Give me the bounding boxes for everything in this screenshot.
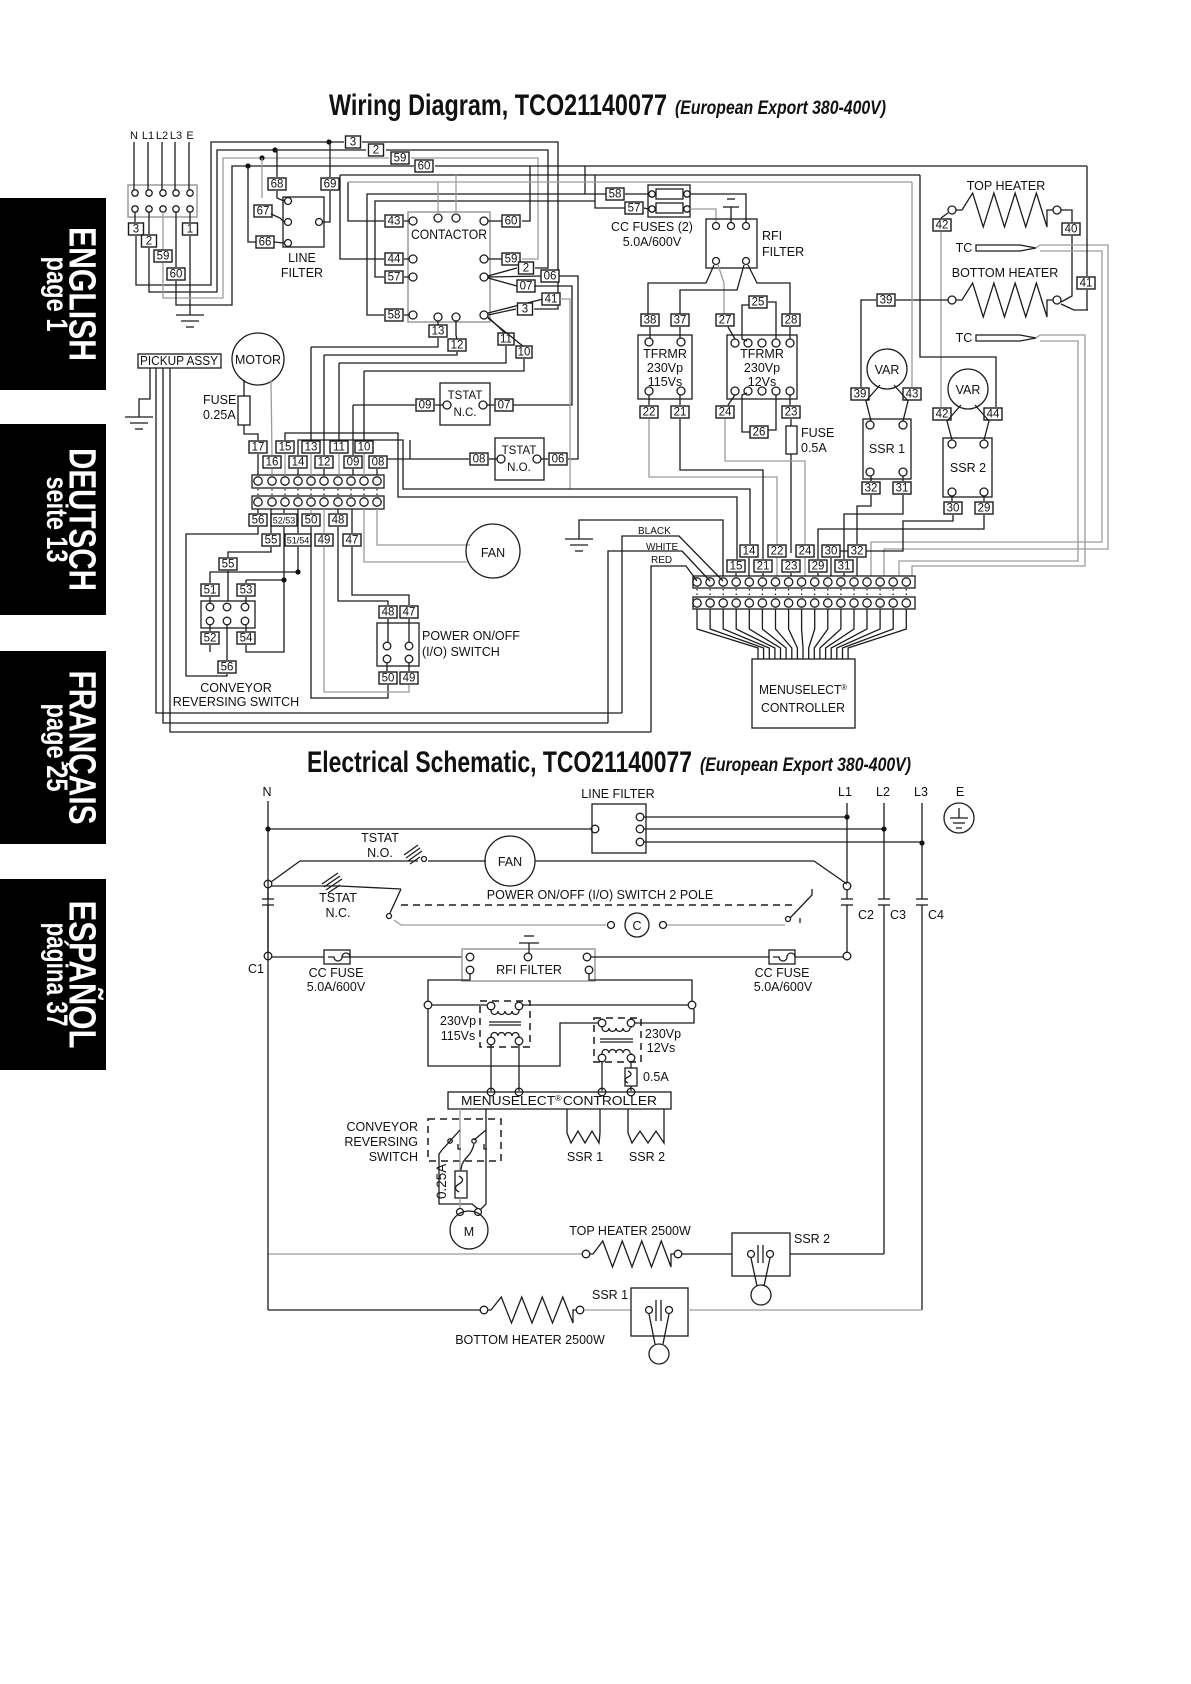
left strip lower labels row1 [257, 509, 259, 513]
terminal dotted links left [257, 489, 259, 496]
svg-text:FILTER: FILTER [762, 245, 804, 259]
svg-text:67: 67 [257, 206, 270, 218]
svg-text:PICKUP ASSY: PICKUP ASSY [140, 354, 219, 368]
bus label 60 [415, 160, 433, 173]
label 24 [716, 406, 734, 419]
controller box schematic [448, 1092, 671, 1109]
VAR1 legs [866, 385, 880, 421]
wire 57 feed [375, 201, 625, 277]
svg-text:MENUSELECT®: MENUSELECT® [759, 683, 847, 698]
svg-text:E: E [956, 785, 964, 799]
label 41 contactor [488, 299, 543, 313]
svg-text:5.0A/600V: 5.0A/600V [623, 235, 682, 249]
label 11 contactor [488, 317, 506, 334]
svg-text:3: 3 [133, 224, 139, 236]
svg-text:L2: L2 [876, 785, 890, 799]
ground pickup [125, 416, 153, 418]
label 06 tstat [549, 453, 567, 466]
svg-text:VAR: VAR [956, 383, 981, 397]
label 49 power [408, 663, 410, 671]
wire 49 return [324, 547, 409, 692]
label 21 [671, 406, 689, 419]
label 60 (L3) [167, 268, 185, 281]
VAR 1 [867, 349, 907, 389]
svg-text:25: 25 [752, 297, 765, 309]
transformer TFRMR1 box [638, 335, 692, 399]
svg-text:14: 14 [743, 546, 756, 558]
conveyor blade 2 [474, 1130, 486, 1140]
label 69 [329, 142, 331, 177]
svg-text:10: 10 [358, 442, 371, 454]
wire 15 to right strip [285, 433, 737, 559]
svg-text:POWER ON/OFF (I/O) SWITCH 2 PO: POWER ON/OFF (I/O) SWITCH 2 POLE [487, 888, 713, 902]
fan wires [364, 509, 467, 562]
svg-text:N.C.: N.C. [454, 407, 477, 419]
svg-text:10: 10 [518, 347, 531, 359]
svg-text:SWITCH: SWITCH [369, 1150, 418, 1164]
svg-text:Electrical Schematic, TCO21140: Electrical Schematic, TCO21140077 [307, 746, 692, 779]
wire RFI to 28 [748, 265, 790, 314]
wires controller to conveyor [459, 1109, 461, 1171]
svg-text:L3: L3 [170, 130, 182, 142]
contactor box [408, 212, 490, 322]
svg-text:M: M [464, 1225, 474, 1239]
svg-text:seite 13: seite 13 [40, 477, 73, 563]
io switch right blade [814, 861, 847, 884]
svg-text:12: 12 [318, 457, 331, 469]
svg-text:CC FUSE: CC FUSE [755, 966, 810, 980]
wire 31 to strip [844, 495, 903, 559]
left strip lower labels row2 [270, 509, 272, 533]
svg-text:60: 60 [418, 161, 431, 173]
label 43 [385, 215, 403, 228]
svg-text:44: 44 [987, 409, 1000, 421]
svg-text:(I/O) SWITCH: (I/O) SWITCH [422, 645, 500, 659]
svg-text:49: 49 [403, 673, 416, 685]
label 53 [237, 584, 255, 597]
wire tfmr2 to fuse half amp [630, 1061, 632, 1068]
svg-text:C3: C3 [890, 908, 906, 922]
svg-text:230Vp: 230Vp [647, 361, 683, 375]
svg-text:29: 29 [812, 561, 825, 573]
label 22 [640, 406, 658, 419]
wire 42 gray riser [940, 232, 942, 407]
svg-text:57: 57 [388, 272, 401, 284]
svg-text:43: 43 [388, 216, 401, 228]
svg-text:13: 13 [305, 442, 318, 454]
svg-text:CC FUSE: CC FUSE [309, 966, 364, 980]
VAR 2 [948, 369, 988, 409]
controller fan-out wires [697, 609, 758, 659]
svg-text:31: 31 [896, 483, 909, 495]
wire 58 feed [367, 194, 606, 315]
svg-text:42: 42 [936, 409, 949, 421]
right strip labels upper [740, 545, 758, 558]
svg-text:56: 56 [252, 515, 265, 527]
svg-text:REVERSING: REVERSING [344, 1135, 418, 1149]
white wire [608, 551, 710, 723]
tstat NO box [495, 438, 544, 480]
wire fan right [535, 860, 814, 862]
rail N [267, 801, 269, 884]
wire N branch circle [264, 880, 272, 888]
svg-text:BOTTOM HEATER 2500W: BOTTOM HEATER 2500W [455, 1333, 605, 1347]
SSR2 coil [627, 1109, 629, 1133]
wire 10 riser [363, 371, 365, 440]
transformer T2 schematic [594, 1018, 641, 1062]
svg-text:06: 06 [552, 454, 565, 466]
svg-text:230Vp: 230Vp [744, 361, 780, 375]
wire tfmr1 to right node [523, 1004, 688, 1006]
wire top heater right [1061, 210, 1072, 222]
SSR2 contact box [732, 1233, 790, 1276]
svg-text:51/54: 51/54 [287, 536, 310, 546]
fuse 0.25A schematic [455, 1171, 467, 1198]
wire left node to tfmr1 [432, 1004, 487, 1006]
wires tfmr1 to controller [490, 1045, 492, 1091]
svg-text:VAR: VAR [875, 363, 900, 377]
svg-text:1: 1 [187, 224, 193, 236]
io switch right hook [790, 889, 812, 918]
svg-text:POWER ON/OFF: POWER ON/OFF [422, 629, 520, 643]
label 06 contactor [488, 276, 542, 277]
sidebar tab ENGLISH page 1 [0, 198, 106, 390]
wire RFI to right node [589, 974, 692, 1001]
svg-text:12Vs: 12Vs [748, 375, 777, 389]
power switch box [377, 623, 419, 666]
wire 48 to switch [338, 527, 388, 605]
wire fuse to motor [459, 1198, 461, 1208]
wire TC1 lines [884, 245, 1108, 576]
wire fuse2 to RFI [690, 209, 716, 222]
wire 43 feed [348, 182, 384, 221]
svg-text:47: 47 [403, 607, 416, 619]
wire 12 riser [323, 355, 325, 455]
SSR1 contact box [631, 1288, 688, 1336]
label 10 contactor [488, 318, 524, 347]
node C1 circle [264, 952, 272, 960]
svg-text:48: 48 [332, 515, 345, 527]
wire TC2 lines [912, 335, 1085, 576]
svg-text:N.C.: N.C. [326, 906, 351, 920]
svg-text:37: 37 [674, 315, 687, 327]
svg-text:(European Export 380-400V): (European Export 380-400V) [700, 755, 911, 776]
label 59 contactor [488, 258, 502, 260]
svg-text:59: 59 [394, 153, 407, 165]
wire SSR1 to L3 [688, 1309, 922, 1311]
conveyor switch box [201, 601, 255, 628]
svg-text:58: 58 [388, 310, 401, 322]
svg-text:29: 29 [978, 503, 991, 515]
svg-text:53: 53 [240, 585, 253, 597]
svg-text:CONTACTOR: CONTACTOR [411, 226, 487, 242]
SSR1 coil [566, 1109, 568, 1133]
svg-text:0.25A: 0.25A [203, 408, 236, 422]
svg-text:CONVEYOR: CONVEYOR [200, 681, 272, 695]
label 42 var [933, 408, 951, 421]
svg-text:TC: TC [956, 331, 973, 345]
rail L1 [846, 803, 848, 882]
wires supply entry [133, 142, 135, 190]
wire C to right pole [667, 924, 785, 926]
svg-text:66: 66 [259, 237, 272, 249]
wire left node jog [428, 1009, 598, 1066]
label 47 power [400, 606, 418, 619]
label 1 (E) [183, 223, 198, 236]
label 39 heater [877, 294, 895, 307]
SSR2 coil circle [751, 1258, 757, 1286]
wire 23 to fuse [790, 419, 792, 426]
svg-text:15: 15 [730, 561, 743, 573]
tstat NC sensor [322, 873, 342, 893]
svg-text:3: 3 [350, 137, 356, 149]
black wire [622, 536, 723, 713]
contactor top pin stubs [437, 182, 439, 214]
svg-text:57: 57 [628, 203, 641, 215]
svg-text:page 25: page 25 [40, 704, 73, 792]
wire 47 to switch [352, 547, 409, 605]
svg-text:23: 23 [785, 561, 798, 573]
svg-text:LINE: LINE [288, 251, 316, 265]
svg-text:5.0A/600V: 5.0A/600V [307, 980, 366, 994]
wire L1 to label 2 [148, 212, 150, 234]
conveyor blade 1 [442, 1130, 460, 1150]
wire SSR2 to L2 [790, 1253, 884, 1255]
svg-text:FILTER: FILTER [281, 266, 323, 280]
conveyor switch box schematic [428, 1119, 501, 1161]
label 52 [209, 625, 211, 631]
label 57 fuse [625, 202, 643, 215]
wire L3 to label 60 [175, 212, 177, 267]
svg-text:59: 59 [157, 251, 170, 263]
svg-text:0.5A: 0.5A [643, 1070, 669, 1084]
power switch dashed link [401, 904, 795, 906]
sidebar tab ESPANOL pagina 37 [0, 879, 106, 1070]
label 55 conveyor [219, 558, 237, 571]
svg-text:51: 51 [204, 585, 217, 597]
svg-text:12: 12 [451, 340, 464, 352]
svg-text:TOP HEATER: TOP HEATER [967, 179, 1046, 193]
svg-text:50: 50 [305, 515, 318, 527]
wire 55 drop [228, 547, 271, 557]
wire bus 60 [176, 166, 414, 305]
svg-text:SSR 2: SSR 2 [629, 1150, 665, 1164]
svg-text:TC: TC [956, 241, 973, 255]
svg-text:07: 07 [498, 400, 511, 412]
SSR2 box [943, 438, 992, 497]
svg-text:44: 44 [388, 254, 401, 266]
motor [232, 333, 284, 385]
svg-text:09: 09 [419, 400, 432, 412]
wire L2 to label 59 [162, 212, 164, 249]
svg-text:2: 2 [523, 263, 529, 275]
svg-text:24: 24 [719, 407, 732, 419]
label 44 var [984, 408, 1002, 421]
tstat NC switch [271, 886, 401, 889]
red wire [651, 566, 697, 732]
svg-text:N.O.: N.O. [367, 846, 393, 860]
right strip risers [748, 558, 750, 576]
label 07 tstat [495, 399, 513, 412]
svg-text:5.0A/600V: 5.0A/600V [754, 980, 813, 994]
bus label 59 [391, 152, 409, 165]
label 29 [983, 496, 985, 501]
fuse F2 [656, 203, 683, 213]
svg-text:C: C [632, 919, 641, 933]
svg-text:12Vs: 12Vs [647, 1041, 676, 1055]
top heater schematic [268, 1253, 582, 1255]
wire tfmr2 to right node [635, 1009, 694, 1023]
label 07 contactor [488, 278, 517, 286]
wire 44 feed [340, 175, 384, 259]
transformer T1 schematic [480, 1001, 530, 1047]
svg-text:115Vs: 115Vs [648, 375, 683, 389]
svg-text:230Vp: 230Vp [645, 1027, 681, 1041]
label 43 var [903, 388, 921, 401]
black mid bus [340, 174, 920, 176]
ground mid [565, 538, 593, 540]
svg-text:TSTAT: TSTAT [502, 445, 537, 457]
wire 52 stub [209, 645, 211, 652]
svg-text:09: 09 [347, 457, 360, 469]
svg-text:REVERSING SWITCH: REVERSING SWITCH [173, 695, 299, 709]
label 44 [385, 253, 403, 266]
svg-text:49: 49 [318, 535, 331, 547]
wire N to line filter [268, 828, 592, 830]
rail L3 [921, 803, 923, 897]
capacitor C3 [878, 898, 890, 900]
svg-text:L1: L1 [838, 785, 852, 799]
label 56 bottom [226, 625, 228, 660]
right strip dotted links [696, 589, 698, 596]
svg-text:L3: L3 [914, 785, 928, 799]
contactor pins [409, 217, 417, 225]
svg-text:FUSE: FUSE [203, 393, 236, 407]
svg-text:L2: L2 [156, 130, 168, 142]
label 67 [261, 158, 263, 198]
wire bottom heater to SSR1 [584, 1309, 631, 1311]
wire fuse to 17 [244, 425, 258, 440]
svg-text:22: 22 [643, 407, 656, 419]
label 27 [716, 314, 734, 327]
SSR1 box [863, 419, 911, 479]
line filter box schematic [592, 804, 646, 853]
bottom heater element [948, 296, 956, 304]
RFI filter box [706, 219, 757, 268]
top heater element [948, 206, 956, 214]
svg-text:24: 24 [799, 546, 812, 558]
svg-text:52: 52 [204, 633, 217, 645]
label 40 [1062, 223, 1080, 236]
left terminal strip row 1 [252, 475, 384, 488]
svg-text:CONTROLLER: CONTROLLER [761, 701, 845, 715]
svg-text:FUSE: FUSE [801, 426, 834, 440]
svg-text:52/53: 52/53 [273, 516, 296, 526]
svg-text:23: 23 [785, 407, 798, 419]
svg-text:16: 16 [266, 457, 279, 469]
svg-text:MENUSELECT® CONTROLLER: MENUSELECT® CONTROLLER [461, 1094, 657, 1109]
wire bus 2 [149, 150, 366, 292]
svg-text:07: 07 [520, 281, 533, 293]
svg-text:TSTAT: TSTAT [448, 390, 483, 402]
label 68 [276, 150, 278, 177]
svg-text:48: 48 [382, 607, 395, 619]
right terminal strip row2 [693, 597, 915, 609]
tstat NO sensor [404, 845, 422, 864]
wire 29 to strip [818, 515, 984, 559]
label 39 var [851, 388, 869, 401]
label 30 [951, 496, 953, 501]
label 51 [201, 584, 219, 597]
wire LF to L2 [644, 828, 884, 830]
wire motor to 16 [271, 381, 272, 455]
svg-text:41: 41 [1080, 278, 1093, 290]
label 25 [749, 296, 767, 309]
label 58 fuse [606, 188, 624, 201]
svg-text:47: 47 [346, 535, 359, 547]
wire RFI to 37 [680, 265, 744, 314]
label 23 [782, 406, 800, 419]
RFI ground schematic [524, 935, 534, 937]
svg-text:SSR 1: SSR 1 [592, 1288, 628, 1302]
wire 24 feed [725, 419, 805, 544]
motor M schematic [457, 1209, 464, 1216]
svg-text:58: 58 [609, 189, 622, 201]
fuse 0.5A schematic [625, 1068, 637, 1086]
label 60 contactor [488, 220, 502, 222]
wire 11 riser [338, 363, 340, 440]
svg-text:115Vs: 115Vs [441, 1029, 476, 1043]
wire 44 feed [920, 175, 996, 407]
ground symbol E [176, 314, 204, 316]
wire 09 riser [352, 405, 354, 455]
svg-text:26: 26 [753, 427, 766, 439]
fan schematic [485, 836, 535, 886]
svg-text:CC FUSES (2): CC FUSES (2) [611, 220, 693, 234]
earth symbol [944, 803, 974, 833]
svg-text:página 37: página 37 [40, 923, 73, 1027]
VAR2 legs [947, 405, 961, 440]
wire 52-53 drop [246, 527, 284, 580]
label 32 [870, 476, 872, 481]
wire fuse to strip 23 [790, 454, 792, 553]
svg-text:230Vp: 230Vp [440, 1014, 476, 1028]
wire LF to L3 [644, 841, 922, 843]
svg-text:C1: C1 [248, 962, 264, 976]
rail N lower [267, 884, 269, 1310]
wire RFI to left node [428, 974, 470, 1001]
svg-text:55: 55 [222, 559, 235, 571]
svg-text:54: 54 [240, 633, 253, 645]
svg-text:0.25A: 0.25A [434, 1164, 449, 1199]
wire 14 to right strip [298, 440, 750, 544]
left strip labels lower [263, 456, 281, 469]
svg-text:27: 27 [719, 315, 732, 327]
svg-text:MOTOR: MOTOR [235, 353, 281, 367]
wire 30 to strip [838, 515, 953, 551]
svg-text:FAN: FAN [481, 546, 505, 560]
wire gray bus to 43 [911, 182, 913, 387]
svg-text:RED: RED [651, 555, 672, 566]
label 2 (L1) [142, 235, 157, 248]
wire 50 return [311, 527, 388, 698]
svg-text:55: 55 [265, 535, 278, 547]
label 50 power [386, 663, 388, 671]
svg-text:0.5A: 0.5A [801, 441, 827, 455]
svg-text:(European Export 380-400V): (European Export 380-400V) [675, 98, 886, 119]
wire 08 riser [409, 440, 411, 459]
label 31 [902, 476, 904, 481]
